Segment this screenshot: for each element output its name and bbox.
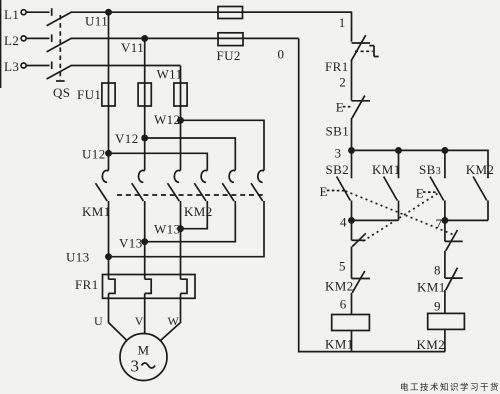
wire to node 9 <box>444 290 446 313</box>
label node 7 <box>436 216 443 231</box>
svg-text:KM1: KM1 <box>325 337 354 352</box>
svg-text:0: 0 <box>278 47 285 62</box>
label node 2 <box>339 75 346 90</box>
svg-text:KM2: KM2 <box>466 162 495 177</box>
svg-text:4: 4 <box>340 215 347 230</box>
label node 3 <box>335 146 342 161</box>
svg-text:W: W <box>168 314 180 328</box>
wire U11 horizontal <box>71 11 352 13</box>
svg-text:E: E <box>320 184 328 199</box>
contact KM2 interlock NC <box>352 278 371 280</box>
svg-text:KM1: KM1 <box>82 204 111 219</box>
fuse FU1 pole V <box>138 83 151 106</box>
node V13 <box>142 239 147 244</box>
contactor KM2 main pole 3 <box>258 170 264 182</box>
svg-text:KM2: KM2 <box>184 204 213 219</box>
watermark <box>400 382 500 392</box>
thermal relay FR1 box <box>103 275 196 299</box>
node bus SB3 branch <box>442 148 447 153</box>
svg-text:U12: U12 <box>82 147 106 162</box>
svg-text:L3: L3 <box>4 59 19 74</box>
label L1 <box>4 7 19 22</box>
wire to node 8 <box>444 251 446 278</box>
svg-text:W11: W11 <box>157 67 183 82</box>
QS pole 3 blade <box>47 66 72 80</box>
wire KM1 pole2 to V13 <box>144 201 146 279</box>
svg-text:L1: L1 <box>4 7 19 22</box>
wire V to motor <box>144 293 146 334</box>
wire to node 5 <box>351 247 353 279</box>
label L3 <box>4 59 19 74</box>
wire SB1 to node 3 <box>351 118 353 150</box>
svg-text:SB2: SB2 <box>326 162 350 177</box>
node 7 <box>442 218 447 223</box>
wire U12 to KM2 pole 1 <box>109 153 208 170</box>
label node 0 <box>278 47 285 62</box>
svg-text:8: 8 <box>434 263 441 278</box>
wire W to motor <box>161 293 181 340</box>
svg-text:V11: V11 <box>121 40 144 55</box>
wire node 4 horizontal <box>352 219 399 221</box>
wire L2 input <box>26 37 49 39</box>
wire KM1 aux down <box>398 201 400 221</box>
label SB2 <box>326 162 350 177</box>
wire W12 to KM2 pole 3 <box>181 120 265 170</box>
label V terminal <box>135 314 144 328</box>
svg-text:KM1: KM1 <box>417 280 446 295</box>
label QS <box>53 85 70 100</box>
label L2 <box>4 33 19 48</box>
contactor KM2 main pole 1 <box>201 170 207 182</box>
label FR1 contact <box>325 59 349 74</box>
QS pole 2 blade <box>47 38 72 52</box>
wire neutral rail 0 <box>299 38 446 351</box>
pushbutton SB2 NO <box>351 150 353 178</box>
wire KM2 coil to rail <box>444 329 446 351</box>
label V11 <box>121 40 144 55</box>
wire V11 vertical <box>144 38 146 170</box>
label FR1 <box>75 277 99 292</box>
contactor KM1 main pole 2 <box>139 170 145 182</box>
svg-text:6: 6 <box>340 297 347 312</box>
svg-text:电工技术知识学习干货: 电工技术知识学习干货 <box>400 382 500 392</box>
label W terminal <box>168 314 180 328</box>
KM main contacts linkage dashed <box>117 194 265 196</box>
label KM2 aux <box>466 162 495 177</box>
svg-text:M: M <box>138 343 150 358</box>
contact KM1 aux NO <box>398 150 400 178</box>
node U11 <box>106 10 111 15</box>
node 3 <box>349 148 354 153</box>
svg-text:V: V <box>135 314 144 328</box>
svg-text:E: E <box>416 186 424 201</box>
label SB1 <box>326 124 350 139</box>
coil KM2 <box>428 313 465 329</box>
label node 4 <box>340 215 347 230</box>
contactor KM2 main pole 2 <box>229 170 235 182</box>
label U terminal <box>94 314 103 328</box>
terminal L3 <box>21 63 26 68</box>
label W11 <box>157 67 183 82</box>
svg-text:V12: V12 <box>115 131 139 146</box>
motor M 3-phase <box>120 334 167 381</box>
label node 6 <box>340 297 347 312</box>
wire to node 6 <box>351 293 353 315</box>
wire V11 horizontal <box>71 37 299 39</box>
contact SB3 linked NC <box>352 239 366 241</box>
svg-text:KM2: KM2 <box>417 337 446 352</box>
QS linkage dashed <box>59 15 61 80</box>
QS pole 1 fixed contact <box>51 8 53 16</box>
svg-text:QS: QS <box>53 85 70 100</box>
fuse FU1 pole W <box>174 83 187 106</box>
label KM2 main <box>184 204 213 219</box>
svg-text:U11: U11 <box>85 14 108 29</box>
wire KM1 pole1 to U13 <box>108 201 110 279</box>
wire node2 <box>351 60 353 101</box>
pushbutton SB3 NO <box>444 150 446 178</box>
thermal relay FR1 NC contact <box>352 42 371 44</box>
label KM1 main <box>82 204 111 219</box>
svg-text:V13: V13 <box>119 236 143 251</box>
label node 9 <box>434 299 441 314</box>
label W13 <box>154 222 180 237</box>
svg-text:FR1: FR1 <box>75 277 99 292</box>
svg-text:5: 5 <box>339 259 346 274</box>
wire L3 input <box>26 65 49 67</box>
contactor KM1 main pole 3 <box>174 170 180 182</box>
wire line 1 corner to control <box>243 12 352 42</box>
QS pole 1 blade <box>47 12 72 26</box>
label U11 <box>85 14 108 29</box>
node V11 <box>142 36 147 41</box>
wire SB3 to node 7 <box>444 201 446 242</box>
svg-text:1: 1 <box>339 15 346 30</box>
QS handle tick <box>56 80 65 82</box>
node U13 <box>106 254 111 259</box>
wire KM2 pole3 to U13 <box>109 201 265 257</box>
label node 5 <box>339 259 346 274</box>
wire L1 input <box>26 11 49 13</box>
mechanical link SB2 dotted <box>346 191 456 236</box>
label V13 <box>119 236 143 251</box>
svg-text:SB1: SB1 <box>326 124 350 139</box>
label W12 <box>154 112 180 127</box>
wire U to motor <box>109 293 127 340</box>
pushbutton SB1 NC <box>352 100 371 102</box>
wire V12 to KM2 pole 2 <box>145 138 236 170</box>
svg-text:FU1: FU1 <box>77 87 101 102</box>
svg-text:3: 3 <box>131 357 140 376</box>
coil KM1 <box>332 315 370 331</box>
node U12 <box>106 151 111 156</box>
wire KM2 pole2 to V13 <box>145 201 236 242</box>
wire KM1 pole3 to W13 <box>180 201 182 279</box>
wire KM1 coil to rail <box>351 331 353 352</box>
wire KM2 aux down <box>487 201 489 221</box>
FR1 heater U <box>109 279 116 293</box>
QS pole 2 fixed contact <box>51 34 53 42</box>
fuse FU2 upper <box>218 7 243 19</box>
FR1 heater V <box>145 279 152 293</box>
scan edge artifact left <box>0 0 2 88</box>
label KM1 aux <box>372 162 401 177</box>
svg-text:KM1: KM1 <box>372 162 401 177</box>
node W12 <box>178 118 183 123</box>
QS pole 3 fixed contact <box>51 62 53 70</box>
wire node 7 horizontal <box>445 219 488 221</box>
label FU1 <box>77 87 101 102</box>
node W13 <box>178 226 183 231</box>
wire bus 3 <box>352 150 489 178</box>
wire SB2 to node 4 <box>351 201 353 241</box>
contact KM1 interlock NC <box>445 277 463 279</box>
label V12 <box>115 131 139 146</box>
terminal L2 <box>21 36 26 41</box>
svg-text:7: 7 <box>436 216 443 231</box>
svg-text:2: 2 <box>339 75 346 90</box>
svg-text:U: U <box>94 314 103 328</box>
svg-text:L2: L2 <box>4 33 19 48</box>
contactor KM1 main pole 1 <box>102 170 108 182</box>
wire U11 vertical <box>108 12 110 170</box>
node 4 <box>349 218 354 223</box>
wire W11 vertical <box>180 66 182 171</box>
svg-text:FU2: FU2 <box>217 48 241 63</box>
wire KM2 pole1 to W13 <box>181 201 208 229</box>
svg-text:W12: W12 <box>154 112 180 127</box>
label node 1 <box>339 15 346 30</box>
svg-text:W13: W13 <box>154 222 180 237</box>
node bus KM1 branch <box>396 148 401 153</box>
fuse FU2 lower <box>218 33 243 46</box>
contact KM2 aux NO <box>473 177 487 201</box>
label SB3 <box>419 162 441 177</box>
label node 8 <box>434 263 441 278</box>
svg-text:9: 9 <box>434 299 441 314</box>
label FU2 <box>217 48 241 63</box>
fuse FU1 pole U <box>102 83 115 106</box>
label U12 <box>82 147 106 162</box>
svg-text:FR1: FR1 <box>325 59 349 74</box>
label U13 <box>66 250 90 265</box>
terminal L1 <box>21 10 26 15</box>
wire W11 horizontal <box>71 65 181 67</box>
svg-text:3: 3 <box>335 146 342 161</box>
mechanical link SB3 dotted <box>363 194 438 242</box>
contact SB2 linked NC <box>445 240 463 242</box>
svg-text:KM2: KM2 <box>325 279 354 294</box>
svg-text:U13: U13 <box>66 250 90 265</box>
FR1 heater W <box>181 279 188 293</box>
node V12 <box>142 135 147 140</box>
